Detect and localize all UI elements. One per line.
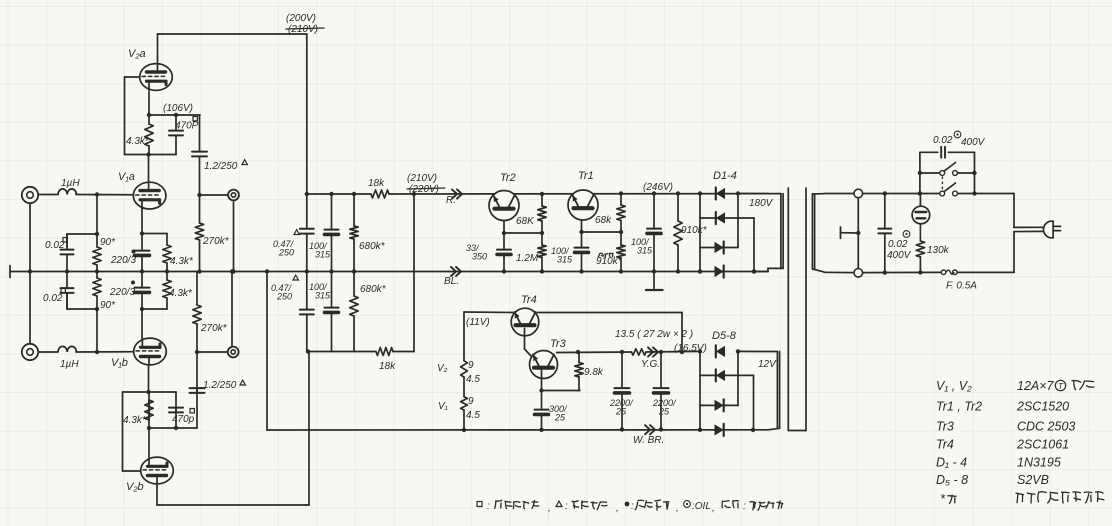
- transistor Tr2: [489, 191, 519, 221]
- wire: bridge HV rung 3: [700, 247, 738, 249]
- diode D6: [716, 370, 725, 381]
- resistor 910k* (Tr1 base): [620, 232, 622, 245]
- wire: 0.02 cap branch (R): [67, 233, 97, 235]
- node: 2200 cap1 top: [620, 350, 624, 354]
- svg-text:,: ,: [616, 503, 619, 514]
- svg-text:25: 25: [615, 407, 627, 417]
- svg-text:Tr2: Tr2: [500, 172, 516, 184]
- legend: capacitor type key: [477, 502, 482, 507]
- svg-text:,: ,: [712, 503, 715, 514]
- svg-text:D1-4: D1-4: [713, 170, 737, 182]
- svg-text:V₁ , V₂: V₁ , V₂: [936, 379, 972, 393]
- svg-text:(106V): (106V): [163, 103, 193, 114]
- diode D3: [715, 242, 724, 253]
- wire: R grid node down-lead: [96, 195, 98, 248]
- svg-text:0.02: 0.02: [888, 239, 908, 250]
- node: V1b cathode junction: [140, 307, 144, 311]
- node: 106V node: [147, 113, 151, 117]
- wire: snubber cap branch: [920, 151, 938, 153]
- nodes: heater bus junctions: [462, 428, 466, 432]
- wire: 106V node to coupling cap: [149, 114, 200, 116]
- svg-text:25: 25: [658, 407, 670, 417]
- svg-text:(210V): (210V): [407, 173, 437, 184]
- wire: V2a plate to B+ (200V): [157, 34, 159, 62]
- capacitor 1.2/250 film (L output coupling): [196, 388, 198, 428]
- wire: 0.02 cap branch (L): [67, 308, 97, 310]
- svg-text:4.3k*: 4.3k*: [170, 256, 194, 267]
- wire: V1b cathode lead: [141, 309, 143, 338]
- capacitor 0.47/250 film (R rail): [306, 194, 308, 229]
- wire: heater chain mid: [463, 377, 465, 397]
- svg-text:220/3: 220/3: [110, 255, 136, 266]
- capacitor 0.47/250 film (L rail): [306, 272, 308, 310]
- svg-text:13.5 ( 27 2w × 2 ): 13.5 ( 27 2w × 2 ): [615, 329, 693, 340]
- svg-text:V₂a: V₂a: [128, 48, 146, 60]
- svg-text:250: 250: [278, 248, 294, 258]
- capacitor 33/350 (Tr2 base): [503, 233, 505, 250]
- transistor Tr3: [530, 351, 558, 379]
- inductor 1uH (L input): [58, 346, 76, 352]
- svg-text:9: 9: [468, 396, 474, 407]
- node: 246V node: [652, 191, 656, 195]
- wire: L-channel input line: [39, 351, 59, 353]
- transformer primary winding: [811, 194, 813, 269]
- wire: V2a grid wire: [125, 76, 141, 78]
- svg-text:470P: 470P: [175, 121, 199, 132]
- wire: heater chain bottom: [463, 410, 465, 430]
- diode D8: [715, 424, 724, 435]
- wire: primary bottom rail: [824, 271, 853, 273]
- svg-text:270k*: 270k*: [202, 236, 230, 247]
- svg-text::: :: [743, 501, 746, 512]
- svg-text:1N3195: 1N3195: [1017, 456, 1061, 470]
- svg-text:315: 315: [315, 250, 331, 260]
- node: bridge HV corners: [698, 191, 702, 195]
- terminal: AC connector pin (top): [854, 189, 863, 198]
- svg-text:T: T: [1058, 381, 1064, 391]
- resistor 1.2M (Tr2 base): [541, 233, 543, 245]
- wire: 11V output row: [464, 311, 513, 314]
- nodes: bus junctions: [28, 269, 32, 273]
- wire: V1a cathode lead: [141, 208, 143, 234]
- wire: switch pole1 row: [920, 172, 940, 174]
- wire: bridge HV left vertical: [699, 194, 701, 272]
- svg-text:CDC 2503: CDC 2503: [1017, 420, 1075, 434]
- wire: R-channel input line: [39, 194, 59, 196]
- connector marker W.BR. (white-brown wire): [645, 425, 650, 434]
- inductor 1uH (R input): [58, 189, 76, 195]
- capacitor 100/315 (R rail): [331, 194, 333, 230]
- node: V1b plate junction: [146, 390, 150, 394]
- node: 210V junction: [412, 192, 416, 196]
- svg-text:Tr4: Tr4: [521, 294, 537, 306]
- node: pilot lamp taps: [918, 191, 922, 195]
- svg-text:0.02: 0.02: [45, 240, 65, 251]
- svg-text:4.5: 4.5: [466, 410, 480, 421]
- svg-text:D₁ - 4: D₁ - 4: [936, 456, 967, 470]
- transformer 12V secondary winding: [776, 352, 778, 429]
- svg-text:V₂: V₂: [437, 363, 448, 374]
- capacitor 0.02 400V oil (across switch): [940, 147, 942, 158]
- svg-text:180V: 180V: [749, 198, 774, 209]
- node: V1a cathode junction: [140, 231, 144, 235]
- diode D5: [716, 346, 725, 357]
- capacitor 470P (SRPP upper): [175, 115, 177, 131]
- resistor 68k (Tr1): [620, 194, 622, 206]
- svg-text:Tr1: Tr1: [578, 170, 594, 182]
- svg-text:4.3k*: 4.3k*: [169, 288, 193, 299]
- svg-text:315: 315: [315, 291, 331, 301]
- wire: L output jack shell to bus: [231, 272, 233, 347]
- capacitor 2200/25 #1: [621, 352, 623, 388]
- node: R rail cap junctions: [329, 192, 333, 196]
- wire: bridge HV rung 2: [700, 217, 754, 219]
- triode V1b: [134, 338, 167, 365]
- ground: shield earth tick: [841, 232, 858, 234]
- output jack R: [228, 190, 239, 201]
- node: 910k top: [676, 191, 680, 195]
- resistor 4.3k (SRPP upper): [148, 115, 150, 124]
- wire: V2a cathode to 106V node: [148, 92, 150, 115]
- diode D2: [716, 212, 725, 223]
- svg-text:270k*: 270k*: [200, 323, 228, 334]
- resistor 68K (Tr2): [541, 194, 543, 206]
- wire: V2b grid wire: [123, 470, 142, 472]
- resistor 680k* (R rail bleeder): [353, 194, 355, 226]
- wire: R input jack shell to bus: [29, 203, 31, 271]
- svg-text:130k: 130k: [927, 245, 950, 256]
- fuse F 0.5A: [941, 270, 946, 275]
- svg-text:250: 250: [276, 292, 292, 302]
- wire: V1b plate node: [123, 391, 177, 393]
- wire: Tr3 base row: [542, 390, 581, 392]
- diode D4: [715, 266, 724, 277]
- svg-text:680k*: 680k*: [360, 284, 387, 295]
- svg-text:350: 350: [472, 252, 487, 262]
- capacitor 0.02 ceramic (L): [66, 272, 68, 289]
- svg-text:(200V): (200V): [286, 13, 316, 24]
- svg-text:220/3: 220/3: [109, 287, 135, 298]
- node: L grid junction: [95, 350, 99, 354]
- wire: L output to jack: [197, 351, 228, 353]
- capacitor 0.02 ceramic (R): [66, 234, 68, 250]
- wire: Tr3 base lead: [541, 368, 543, 391]
- svg-text:D₅ - 8: D₅ - 8: [936, 473, 968, 487]
- wire: L grid node up-lead: [96, 296, 98, 352]
- node: switch branch nodes: [918, 191, 922, 195]
- node: bridge LV corners: [698, 349, 702, 353]
- capacitor 220/3 tantalum (V1b cathode): [141, 272, 143, 288]
- svg-text:1µH: 1µH: [60, 359, 79, 370]
- wire: bridge LV left vertical: [699, 351, 701, 430]
- resistor 18k (L rail): [376, 348, 393, 356]
- svg-text::: :: [631, 501, 634, 512]
- svg-text:V₂b: V₂b: [126, 481, 144, 493]
- input jack R: [22, 187, 38, 203]
- svg-text:12V: 12V: [758, 359, 777, 370]
- svg-text:BL.: BL.: [444, 276, 459, 287]
- svg-text:18k: 18k: [368, 178, 385, 189]
- switch pole 1: [940, 171, 945, 176]
- connector marker Y.G. (yellow-green wire): [648, 347, 653, 356]
- capacitor 0.02 400V oil (line filter): [884, 194, 886, 229]
- svg-text:1.2/250: 1.2/250: [204, 161, 238, 172]
- input jack L: [22, 344, 38, 360]
- svg-text:Y.G.: Y.G.: [641, 359, 660, 370]
- wire: heater chain top: [463, 312, 465, 361]
- resistor 910k* (bleeder 246V): [677, 194, 679, 222]
- resistor 9.8k: [578, 352, 580, 363]
- svg-text:V₁: V₁: [438, 401, 448, 412]
- svg-text:315: 315: [557, 255, 573, 265]
- resistor 270k* (L output load): [196, 272, 198, 306]
- resistor 90* (L grid load): [93, 278, 101, 296]
- svg-text:18k: 18k: [379, 361, 396, 372]
- terminal: AC connector pin (bottom): [854, 269, 863, 278]
- node: 68k top: [619, 191, 623, 195]
- node: 200V node: [305, 192, 309, 196]
- node: 68K top: [540, 192, 544, 196]
- wire: B+ rail R (200V-210V): [307, 193, 371, 195]
- wire: switch branch verticals: [919, 152, 921, 193]
- svg-text:90*: 90*: [100, 237, 116, 248]
- triode V1a: [133, 182, 166, 209]
- svg-text:4.3k*: 4.3k*: [126, 136, 150, 147]
- svg-text:9: 9: [468, 360, 474, 371]
- wire: V2b cathode to node: [148, 428, 150, 456]
- node: Tr2 base junctions: [502, 231, 506, 235]
- node: V2b cathode node: [147, 426, 151, 430]
- node: R grid junction: [95, 192, 99, 196]
- wire: Tr1 base lead: [581, 208, 583, 232]
- resistor 130k (pilot dropper): [916, 241, 924, 257]
- svg-text:Tr3: Tr3: [550, 338, 567, 350]
- triode V2a: [140, 64, 173, 91]
- wire: 210V feed to L rail: [413, 194, 415, 352]
- svg-text:(246V): (246V): [643, 182, 673, 193]
- wire: raw 16.5V row: [557, 351, 632, 354]
- diode D1: [716, 188, 725, 199]
- capacitor 300/25 (Tr3 base): [541, 391, 543, 410]
- svg-text:4.3k*: 4.3k*: [123, 415, 147, 426]
- svg-text:68K: 68K: [516, 216, 535, 227]
- node: shield tap: [856, 231, 860, 235]
- svg-text:0.02: 0.02: [933, 135, 953, 146]
- svg-text:1.2M: 1.2M: [516, 253, 539, 264]
- resistor 90* (R grid load): [93, 247, 101, 265]
- node: L rail node: [306, 349, 310, 353]
- AC plug: [1043, 221, 1053, 238]
- wire: cathode node to coupling cap: [149, 427, 197, 429]
- resistor 13.5 ohm (heater feed): [632, 349, 647, 355]
- resistor 4.3k* (V1b cathode): [166, 272, 168, 281]
- svg-text:V₁b: V₁b: [111, 357, 128, 369]
- svg-text:9.8k: 9.8k: [584, 367, 604, 378]
- output jack L: [228, 347, 239, 358]
- svg-text:R.: R.: [446, 195, 456, 206]
- pilot lamp (neon): [919, 194, 921, 207]
- svg-text:Tr3: Tr3: [936, 420, 954, 434]
- resistor 4.3k* (V1a cathode): [166, 234, 168, 246]
- capacitor 100/315 (Tr1 base): [581, 232, 583, 248]
- wire: AC cord: [1013, 194, 1015, 228]
- svg-text:Tr1 , Tr2: Tr1 , Tr2: [936, 400, 982, 414]
- wire: Tr4 collector row: [537, 312, 682, 314]
- svg-text::OIL: :OIL: [692, 501, 711, 512]
- capacitor 1.2/250 film (R output coupling): [199, 115, 201, 152]
- transistor Tr1: [568, 190, 598, 220]
- wire: bridge LV rung 2: [700, 374, 754, 376]
- wire: V1a plate node: [125, 154, 177, 156]
- svg-text:910k*: 910k*: [596, 256, 623, 267]
- node: line cap top/bottom: [883, 191, 887, 195]
- ground: chassis tick at 246V cap: [653, 272, 655, 291]
- wire: Tr4 base to Tr3: [524, 329, 526, 350]
- resistor heater dropper V2 (9+4.5): [461, 361, 468, 377]
- node: Tr1 base junctions: [579, 230, 583, 234]
- svg-text:68k: 68k: [595, 215, 612, 226]
- svg-text:12A×7: 12A×7: [1017, 379, 1055, 393]
- svg-text:W. BR.: W. BR.: [633, 435, 664, 446]
- svg-text:,: ,: [548, 503, 551, 514]
- svg-text:470p: 470p: [172, 414, 195, 425]
- svg-text:1.2/250: 1.2/250: [203, 380, 237, 391]
- svg-text::: :: [565, 501, 568, 512]
- capacitor 100/315 (246V): [653, 194, 655, 229]
- svg-text:V₁a: V₁a: [118, 171, 135, 183]
- capacitor 220/3 tantalum (V1a cathode): [141, 234, 143, 251]
- svg-text:910k*: 910k*: [681, 225, 708, 236]
- connector marker BL. (black wire): [451, 267, 456, 276]
- wire: L input jack shell to bus: [29, 272, 31, 344]
- svg-text:90*: 90*: [100, 300, 116, 311]
- wire: common 0V bus: [10, 271, 768, 273]
- wire: transformer shield link: [857, 198, 859, 269]
- resistor heater dropper V1 (9+4.5): [461, 397, 468, 410]
- wire: heater return bus (W.BR): [266, 272, 268, 431]
- wire: primary top rail: [824, 193, 853, 195]
- node: V1a plate junction: [146, 152, 150, 156]
- svg-text:Tr4: Tr4: [936, 438, 954, 452]
- transistor Tr4: [511, 308, 539, 336]
- svg-text:400V: 400V: [961, 137, 986, 148]
- wire: B+ rail L: [307, 351, 376, 353]
- resistor 4.3k (SRPP lower): [148, 400, 150, 428]
- svg-text:680k*: 680k*: [359, 241, 386, 252]
- wire: Tr1 base row: [582, 231, 622, 233]
- wire: HV secondary to transformer: [754, 271, 768, 273]
- connector marker R. (red wire): [452, 189, 457, 198]
- svg-text:(11V): (11V): [466, 317, 490, 328]
- wire: bridge LV rung 3: [700, 404, 738, 406]
- node: 9.8k top: [576, 350, 580, 354]
- svg-text:25: 25: [554, 413, 566, 423]
- svg-text:2SC1061: 2SC1061: [1016, 438, 1069, 452]
- switch gang link (dashed): [941, 177, 943, 191]
- resistor 270k* (R output load): [199, 195, 201, 223]
- node: Tr3 base junction: [539, 388, 543, 392]
- svg-text:315: 315: [637, 246, 653, 256]
- node: 2200 cap2 top: [659, 350, 663, 354]
- svg-text:,: ,: [676, 503, 679, 514]
- svg-text:4.5: 4.5: [466, 374, 480, 385]
- svg-text:S2VB: S2VB: [1017, 473, 1049, 487]
- capacitor 100/315 (L rail): [331, 272, 333, 308]
- transformer core: [787, 188, 789, 431]
- wire: R output to jack: [200, 194, 229, 196]
- svg-text:0.02: 0.02: [43, 293, 63, 304]
- svg-text::: :: [487, 501, 490, 512]
- node: L output junction: [195, 350, 199, 354]
- svg-text:(210V): (210V): [288, 24, 318, 35]
- svg-text:1µH: 1µH: [61, 178, 80, 189]
- capacitor 470p (SRPP lower): [175, 408, 177, 428]
- wire: V2b plate to B+: [156, 485, 158, 505]
- resistor 680k* (L rail bleeder): [353, 272, 355, 297]
- triode V2b: [141, 457, 174, 484]
- wire: Tr2 base lead: [503, 209, 505, 233]
- transformer 180V secondary winding: [780, 194, 782, 269]
- svg-text:D5-8: D5-8: [712, 330, 737, 342]
- svg-text:F. 0.5A: F. 0.5A: [946, 281, 977, 292]
- switch pole 2 (mains): [940, 191, 945, 196]
- resistor 18k (R rail): [371, 190, 389, 198]
- wire: R output jack shell to bus: [233, 202, 235, 272]
- wire: Tr2 base row: [504, 232, 542, 234]
- node: R output junction: [197, 193, 201, 197]
- svg-text:2SC1520: 2SC1520: [1016, 400, 1069, 414]
- capacitor 2200/25 #2: [660, 352, 662, 388]
- diode D7: [715, 400, 724, 411]
- svg-text:400V: 400V: [887, 250, 912, 261]
